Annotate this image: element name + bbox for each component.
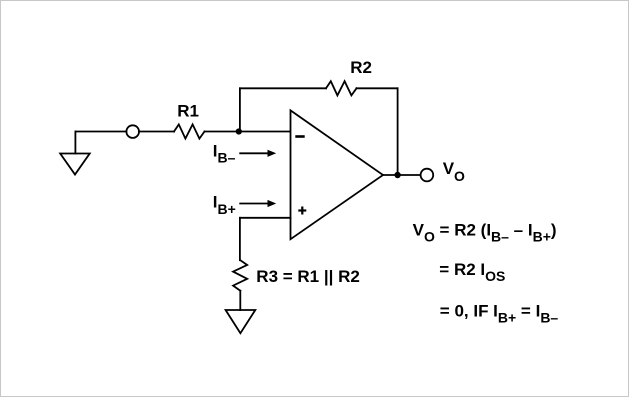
svg-text:VO = R2 (IB– – IB+): VO = R2 (IB– – IB+) [413, 220, 557, 244]
ground GND1 [60, 132, 89, 175]
svg-text:IB+: IB+ [213, 193, 236, 217]
terminal input circle [126, 125, 139, 138]
terminal output circle [421, 169, 434, 182]
svg-text:R1: R1 [177, 102, 199, 121]
wire feedback top right [357, 87, 398, 89]
wire feedback down to output [397, 88, 399, 175]
wire to R3 [239, 218, 241, 260]
wire noninverting input [240, 217, 291, 219]
resistor R1 [174, 124, 205, 138]
svg-text:R3 = R1 || R2: R3 = R1 || R2 [256, 267, 360, 286]
svg-text:R2: R2 [350, 58, 372, 77]
wire output [383, 174, 420, 176]
svg-text:VO: VO [443, 159, 465, 184]
wire feedback up [239, 88, 241, 131]
node inverting input junction [236, 128, 242, 134]
wire R3 to ground [239, 291, 241, 310]
resistor R2 [326, 81, 357, 95]
svg-text:IB–: IB– [213, 141, 236, 165]
node output junction [394, 172, 400, 178]
wire circle to R1 [139, 131, 174, 133]
arrow IB- current [239, 150, 276, 157]
svg-text:= R2 IOS: = R2 IOS [439, 260, 505, 284]
wire feedback top left [240, 87, 326, 89]
arrow IB+ current [239, 200, 276, 207]
svg-text:= 0, IF IB+ = IB–: = 0, IF IB+ = IB– [440, 302, 559, 326]
wire input left [75, 131, 126, 133]
pin label minus [295, 135, 304, 138]
op-amp U1 [291, 110, 384, 239]
pin label plus [298, 207, 306, 215]
resistor R3 [233, 260, 247, 291]
ground GND2 [226, 310, 256, 333]
wire R1 to op-amp inverting input [205, 131, 291, 133]
